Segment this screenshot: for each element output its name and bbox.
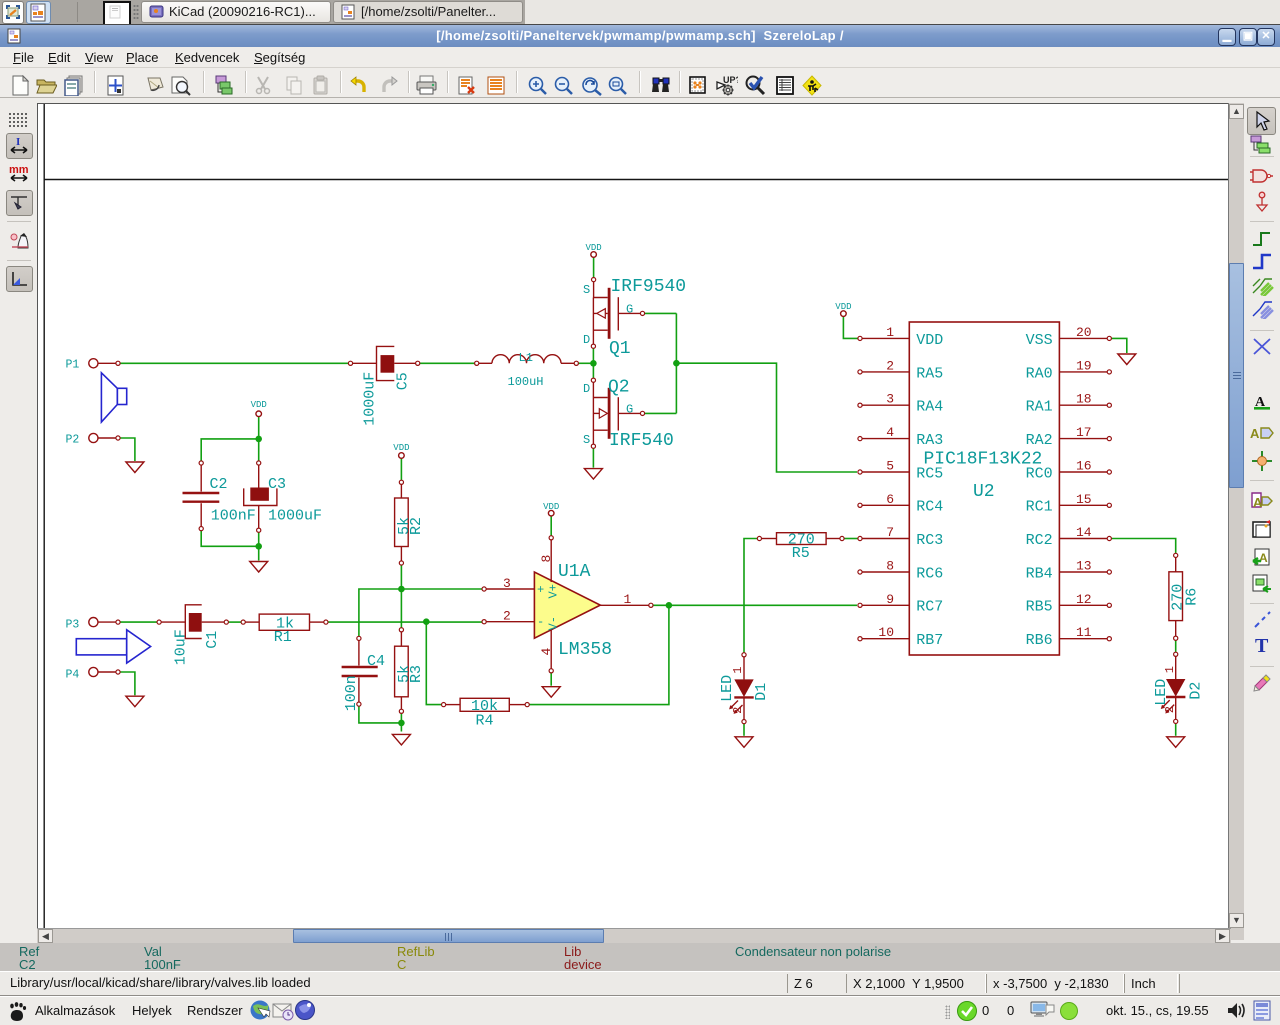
- TOOLBAR: [0, 67, 1280, 98]
- svg-text:3: 3: [503, 576, 511, 591]
- wire P3 to C1: [120, 621, 157, 623]
- svg-text:3: 3: [886, 392, 894, 407]
- svg-text:RB7: RB7: [916, 632, 943, 649]
- power VDD at C3: [256, 411, 262, 417]
- wire VDD to R2 top: [400, 458, 402, 480]
- svg-text:C4: C4: [367, 653, 385, 670]
- svg-text:+: +: [537, 583, 544, 597]
- svg-text:L1: L1: [519, 351, 533, 365]
- svg-text:VDD: VDD: [835, 302, 851, 312]
- svg-text:1: 1: [624, 592, 632, 607]
- wire opamp pin4 to ground: [550, 673, 552, 686]
- wire R5 to U2 pin7: [844, 538, 858, 540]
- svg-text:D2: D2: [1187, 682, 1204, 700]
- sheet frame top border: [44, 179, 1228, 181]
- svg-text:11: 11: [1076, 625, 1092, 640]
- wire R2 bottom to plus junction: [400, 565, 402, 627]
- junction C3 top: [255, 436, 262, 443]
- svg-text:VDD: VDD: [543, 502, 559, 512]
- resistor R2: [395, 485, 409, 561]
- svg-text:RC5: RC5: [916, 465, 943, 482]
- svg-text:C5: C5: [394, 372, 411, 390]
- svg-text:LM358: LM358: [558, 640, 612, 660]
- op-amp U1A: [486, 540, 648, 669]
- power VDD at U2: [841, 311, 847, 317]
- ground R3 C4: [392, 734, 410, 745]
- svg-text:RB4: RB4: [1026, 565, 1053, 582]
- resistor R5: [762, 533, 840, 545]
- svg-text:VDD: VDD: [916, 332, 943, 349]
- ground P2: [126, 462, 144, 473]
- svg-text:8: 8: [886, 559, 894, 574]
- INFO BAR: [0, 943, 1280, 971]
- svg-text:20: 20: [1076, 325, 1092, 340]
- svg-text:P1: P1: [66, 358, 80, 371]
- resistor R3: [395, 632, 409, 709]
- wire C4 bottom to ground junction: [359, 706, 402, 723]
- wire Q2 gate: [645, 412, 677, 414]
- svg-text:10uF: 10uF: [173, 629, 190, 665]
- connector P3: [89, 618, 116, 627]
- svg-text:mm: mm: [9, 165, 29, 176]
- junction minus input: [423, 618, 430, 625]
- transistor Q1 IRF9540: [593, 282, 640, 344]
- svg-text:C2: C2: [210, 476, 228, 493]
- svg-text:V+: V+: [547, 584, 561, 598]
- svg-text:UP?: UP?: [723, 75, 738, 85]
- svg-text:V-: V-: [547, 616, 561, 630]
- svg-text:10: 10: [878, 625, 894, 640]
- wire D2 bottom to ground: [1175, 724, 1177, 736]
- svg-text:R2: R2: [408, 517, 425, 535]
- svg-text:S: S: [583, 283, 590, 297]
- svg-text:RC6: RC6: [916, 565, 943, 582]
- svg-text:4: 4: [539, 648, 554, 656]
- wire Q1 gate to gate bus: [645, 312, 677, 314]
- U2 right pin lines: [1059, 338, 1107, 638]
- svg-text:15: 15: [1076, 492, 1092, 507]
- svg-text:RA1: RA1: [1026, 399, 1053, 416]
- wire opamp VDD to pin8: [550, 516, 552, 536]
- svg-text:R3: R3: [408, 665, 425, 683]
- svg-text:RC1: RC1: [1026, 499, 1053, 516]
- svg-text:P4: P4: [66, 668, 80, 681]
- capacitor C2: [183, 465, 220, 526]
- capacitor C5 polarized: [353, 346, 416, 380]
- junction gates: [673, 360, 680, 367]
- svg-text:RA2: RA2: [1026, 432, 1053, 449]
- U2 left pin lines: [862, 338, 909, 638]
- svg-text:RB6: RB6: [1026, 632, 1053, 649]
- wire opamp output to U2 pin9: [653, 604, 857, 606]
- svg-text:R6: R6: [1184, 588, 1201, 606]
- ground P4: [126, 696, 144, 707]
- sheet frame left border: [43, 104, 45, 928]
- svg-text:12: 12: [1076, 592, 1092, 607]
- svg-text:9: 9: [886, 592, 894, 607]
- svg-text:2: 2: [731, 707, 745, 714]
- svg-text:18: 18: [1076, 392, 1092, 407]
- speaker symbol: [101, 373, 126, 422]
- svg-text:T: T: [1255, 635, 1269, 656]
- svg-text:1000uF: 1000uF: [361, 372, 378, 426]
- resistor R4: [446, 698, 525, 711]
- wire D1 bottom to ground: [743, 724, 745, 736]
- wire C1 to R1: [229, 621, 242, 623]
- svg-text:RC3: RC3: [916, 532, 943, 549]
- svg-text:R4: R4: [476, 712, 494, 729]
- wire P1 to C5: [120, 362, 348, 364]
- svg-text:VDD: VDD: [251, 400, 267, 410]
- transistor Q2 IRF540: [593, 382, 640, 444]
- svg-text:1: 1: [886, 325, 894, 340]
- svg-text:RA5: RA5: [916, 365, 943, 382]
- wire C5 to L1: [420, 362, 475, 364]
- arrow symbol: [76, 630, 150, 663]
- svg-text:LED: LED: [719, 675, 736, 702]
- svg-text:U2: U2: [973, 482, 995, 502]
- power VDD at R2: [399, 453, 405, 459]
- wire R1 to opamp pin2: [328, 621, 482, 623]
- junction output: [666, 602, 673, 609]
- svg-text:7: 7: [886, 525, 894, 540]
- ground D2: [1167, 737, 1185, 748]
- svg-text:Q1: Q1: [609, 339, 631, 359]
- wire C3 bottom to ground: [258, 532, 260, 560]
- wire VSS pin20 to ground: [1112, 338, 1127, 353]
- svg-text:C3: C3: [268, 476, 286, 493]
- svg-text:Q2: Q2: [608, 377, 630, 397]
- pin end circles: [116, 278, 1178, 724]
- connector P2: [89, 433, 116, 442]
- wire P2 to ground: [120, 438, 135, 461]
- wire U2 pin14 to R6: [1112, 539, 1176, 554]
- svg-text:RC2: RC2: [1026, 532, 1053, 549]
- connector P1: [89, 359, 116, 368]
- svg-text:U1A: U1A: [558, 562, 591, 582]
- svg-text:S: S: [583, 433, 590, 447]
- U2 right pin numbers: [1076, 325, 1092, 640]
- svg-text:RA4: RA4: [916, 399, 943, 416]
- svg-text:D: D: [583, 382, 590, 396]
- svg-text:IRF540: IRF540: [609, 431, 674, 451]
- U2 left pin numbers: [878, 325, 894, 640]
- svg-text:VDD: VDD: [585, 243, 601, 253]
- capacitor C4: [342, 641, 378, 702]
- wire R6 bottom to D2: [1175, 640, 1177, 652]
- svg-text:C1: C1: [204, 631, 221, 649]
- svg-text:P3: P3: [66, 618, 80, 631]
- wire plus junction to C4 top: [359, 589, 402, 636]
- wire plus junction to opamp pin3: [401, 588, 482, 590]
- svg-text:RA0: RA0: [1026, 365, 1053, 382]
- LED D2: [1162, 657, 1186, 720]
- junction R3 ground: [398, 720, 405, 727]
- svg-text:8: 8: [539, 555, 554, 563]
- U2 right pin names: [1026, 332, 1053, 649]
- ground C2 C3: [250, 562, 268, 573]
- BOTTOM PANEL: [0, 996, 1280, 1025]
- svg-text:13: 13: [1076, 559, 1092, 574]
- wire junction to C2 top: [201, 439, 259, 461]
- MENU BAR: [0, 47, 1280, 67]
- svg-text:I: I: [16, 136, 20, 148]
- wire U2 VDD to pin1: [843, 316, 857, 338]
- svg-text:RC4: RC4: [916, 499, 943, 516]
- HSCROLL: [37, 928, 1231, 943]
- RIGHT TOOLBAR: [1244, 99, 1280, 940]
- svg-text:RC7: RC7: [916, 599, 943, 616]
- VSCROLL: [1228, 103, 1244, 940]
- junction drains: [590, 360, 597, 367]
- svg-text:RA3: RA3: [916, 432, 943, 449]
- LEFT TOOLBAR: [0, 99, 37, 928]
- svg-text:D1: D1: [753, 683, 770, 701]
- svg-text:P2: P2: [66, 433, 80, 446]
- wire C2 bottom to gnd junction: [201, 531, 259, 547]
- svg-text:4: 4: [886, 425, 894, 440]
- junction C3 bottom: [255, 543, 262, 550]
- svg-text:2: 2: [503, 609, 511, 624]
- wire gate vertical: [675, 313, 677, 413]
- inductor L1: [479, 355, 574, 364]
- svg-text:D: D: [583, 333, 590, 347]
- wire Q1 VDD stub: [593, 257, 595, 277]
- U2 left pin names: [916, 332, 943, 649]
- wire R5 left to LED D1: [744, 539, 757, 653]
- ground D1: [735, 737, 753, 748]
- svg-text:G: G: [626, 303, 633, 317]
- svg-text:100n: 100n: [343, 675, 360, 711]
- wire VDD to junction C3: [258, 417, 260, 461]
- ground Q2 source: [584, 469, 602, 480]
- ground VSS: [1118, 354, 1136, 365]
- svg-text:G: G: [626, 403, 633, 417]
- svg-text:5: 5: [886, 459, 894, 474]
- junction plus input: [398, 586, 405, 593]
- svg-text:2: 2: [1163, 706, 1177, 713]
- svg-text:1: 1: [1163, 666, 1177, 673]
- TITLE BAR: [0, 24, 1280, 47]
- CANVAS: [37, 103, 1228, 928]
- svg-text:VSS: VSS: [1026, 332, 1053, 349]
- power VDD at Q1: [591, 252, 597, 258]
- wire Q2 source to ground: [592, 448, 594, 467]
- TOP TASKBAR: [0, 0, 1280, 24]
- ground U1A pin4: [542, 687, 560, 698]
- resistor R1: [245, 614, 323, 630]
- svg-text:RB5: RB5: [1026, 599, 1053, 616]
- power VDD at U1A: [548, 510, 554, 516]
- svg-text:2: 2: [886, 358, 894, 373]
- svg-text:6: 6: [886, 492, 894, 507]
- wire feedback down from minus junction: [426, 622, 441, 705]
- wire P4 to ground: [120, 672, 135, 695]
- svg-text:1: 1: [731, 667, 745, 674]
- svg-text:R1: R1: [274, 629, 292, 646]
- svg-text:100nF: 100nF: [211, 508, 256, 525]
- LED D1: [730, 657, 754, 719]
- svg-text:1000uF: 1000uF: [268, 508, 322, 525]
- svg-text:100uH: 100uH: [508, 375, 544, 389]
- wire R4 to output junction: [529, 605, 669, 704]
- svg-text:LED: LED: [1153, 679, 1170, 706]
- svg-text:IRF9540: IRF9540: [611, 277, 687, 297]
- svg-text:VDD: VDD: [393, 443, 409, 453]
- IC U2 PIC18F13K22: [909, 322, 1059, 655]
- capacitor C1 polarized: [161, 605, 224, 639]
- resistor R6: [1169, 558, 1183, 636]
- wire gates to U2 pin5: [676, 363, 857, 472]
- connector P4: [89, 667, 116, 676]
- svg-text:RC0: RC0: [1026, 465, 1053, 482]
- wire L1 to drain junction: [579, 362, 594, 364]
- svg-text:A: A: [1250, 426, 1260, 441]
- svg-text:19: 19: [1076, 358, 1092, 373]
- svg-text:A: A: [1259, 551, 1268, 565]
- svg-text:14: 14: [1076, 525, 1092, 540]
- svg-text:R5: R5: [792, 545, 810, 562]
- wire Q1 drain to Q2 drain: [592, 348, 594, 378]
- svg-text:17: 17: [1076, 425, 1092, 440]
- capacitor C3 polarized: [244, 465, 277, 528]
- svg-text:16: 16: [1076, 459, 1092, 474]
- svg-text:-: -: [537, 615, 544, 629]
- wire R3 bottom to ground junction: [400, 714, 402, 732]
- STATUS BAR: [0, 971, 1280, 996]
